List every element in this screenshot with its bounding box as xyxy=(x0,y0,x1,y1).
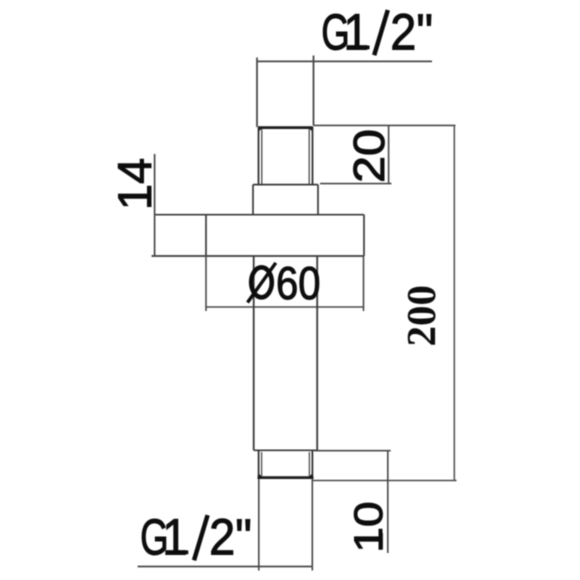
svg-text:14: 14 xyxy=(108,158,161,210)
flange right edge xyxy=(363,215,365,256)
thread 20 chamfer right xyxy=(309,127,313,131)
label G1/2" top xyxy=(321,4,433,61)
dimension line 14 xyxy=(154,154,156,256)
thread 20 left outer line xyxy=(258,127,260,184)
collar left edge xyxy=(252,185,254,215)
svg-text:200: 200 xyxy=(398,285,444,347)
20 bottom extension line xyxy=(320,183,392,185)
bottom right extension line xyxy=(311,479,313,571)
200/10 bottom extension line xyxy=(313,480,457,482)
label Ø60 : diameter symbol xyxy=(248,263,276,303)
thread 10 right inner line xyxy=(308,452,310,477)
Ø60 right extension line xyxy=(363,256,365,311)
collar top line xyxy=(253,184,318,186)
thread section 10 left outer line xyxy=(258,450,260,478)
svg-text:1: 1 xyxy=(344,4,370,61)
flange top line with 14 extension xyxy=(154,214,364,216)
label 14 : foot of digit 1 xyxy=(147,189,151,206)
10 top extension line xyxy=(315,450,391,452)
lower pipe bottom line xyxy=(254,449,318,451)
upper pipe left edge xyxy=(256,58,258,128)
dimension line 200 xyxy=(453,125,455,480)
top dimension line G1/2" xyxy=(257,60,432,62)
label 10 xyxy=(347,501,392,552)
bottom dimension line G1/2" xyxy=(138,566,313,568)
dimension line 20 xyxy=(388,125,390,183)
collar right edge xyxy=(317,185,319,215)
thread section 20: top dark line xyxy=(258,126,313,129)
svg-text:2": 2" xyxy=(390,5,433,61)
lower pipe right edge xyxy=(316,256,318,450)
label 14 xyxy=(108,158,161,210)
label G1/2" bottom xyxy=(140,509,252,566)
thread 20 left inner line xyxy=(261,129,263,184)
label 10 : foot of digit 1 xyxy=(379,533,383,550)
bottom left extension line xyxy=(258,479,260,571)
upper pipe right edge xyxy=(313,56,315,126)
label 200 xyxy=(398,285,444,347)
thread 10 chamfer left xyxy=(259,475,263,479)
label Ø60 : digits xyxy=(276,258,321,309)
20 top extension line xyxy=(314,124,456,126)
thread 10 bottom dark line xyxy=(258,476,314,479)
svg-text:60: 60 xyxy=(276,258,321,309)
thread 10 left inner line xyxy=(261,452,263,477)
svg-text:20: 20 xyxy=(344,129,393,183)
svg-text:1: 1 xyxy=(162,509,188,566)
Ø60 left extension line xyxy=(205,256,207,311)
thread 20 right outer line xyxy=(312,127,314,184)
thread 10 chamfer right xyxy=(309,475,313,479)
label 20 xyxy=(344,129,393,183)
Ø60 dimension line xyxy=(206,306,364,308)
flange bottom line with 14 extension xyxy=(152,255,365,257)
dimension line 10 xyxy=(387,451,389,553)
thread 20 right inner line xyxy=(308,129,310,184)
lower pipe left edge xyxy=(253,256,255,450)
thread 10 right outer line xyxy=(311,450,313,478)
thread 20 chamfer left xyxy=(259,127,263,131)
svg-text:10: 10 xyxy=(347,501,392,552)
svg-text:2": 2" xyxy=(209,510,252,566)
flange left edge xyxy=(205,215,207,256)
